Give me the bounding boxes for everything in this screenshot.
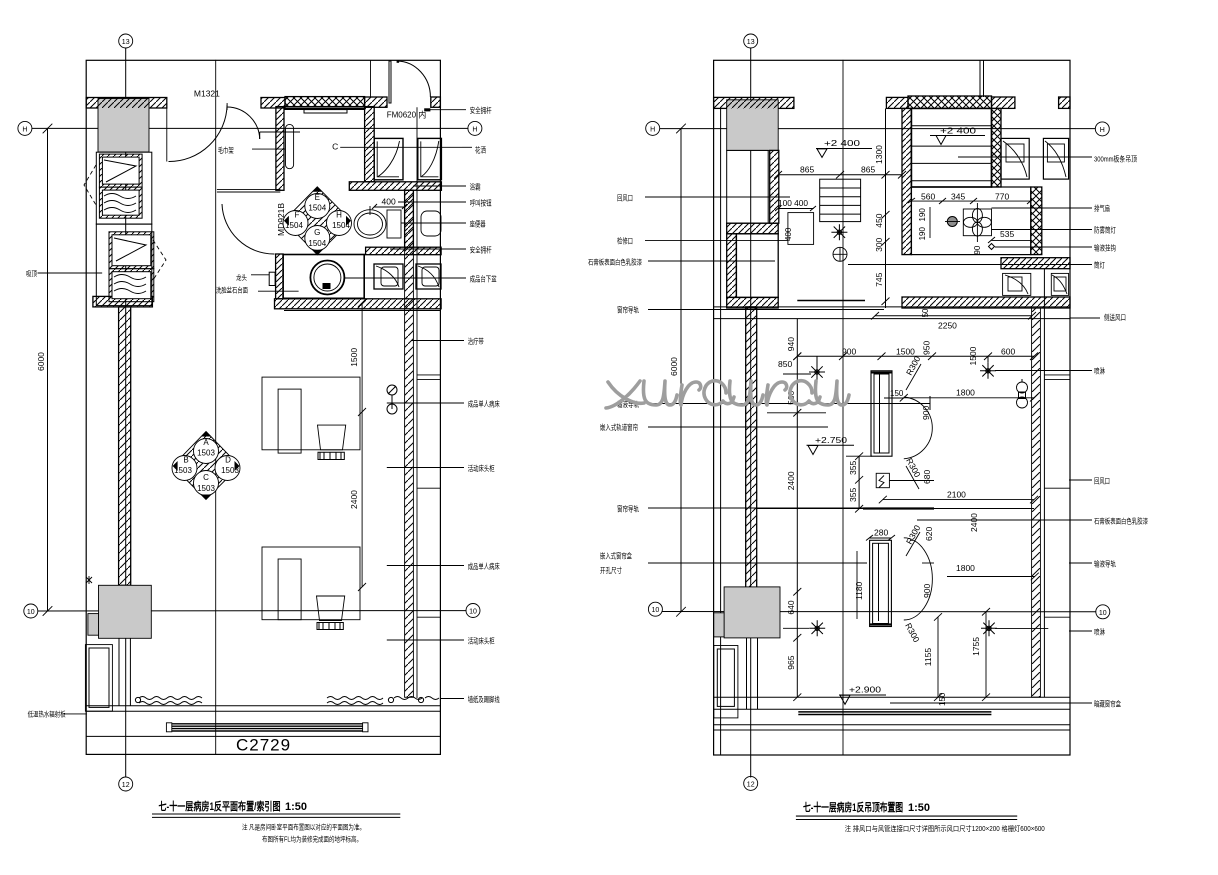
- svg-text:D: D: [225, 456, 231, 465]
- watermark xurourou: [606, 381, 849, 408]
- dashed swing marks: [84, 165, 96, 205]
- svg-text:400: 400: [784, 227, 793, 241]
- equip box 4 frame: [109, 269, 154, 302]
- exhaust vent filled circle: [947, 217, 957, 227]
- bathroom west wall: [276, 107, 284, 191]
- svg-text:535: 535: [1000, 229, 1014, 239]
- svg-text:G: G: [314, 228, 320, 237]
- shaft right wall: [770, 150, 779, 223]
- svg-text:成品台下盆: 成品台下盆: [470, 274, 497, 284]
- svg-text:190: 190: [918, 208, 927, 222]
- svg-text:注 排风口与风管连接口尺寸详图所示风口尺寸1200×200: 注 排风口与风管连接口尺寸详图所示风口尺寸1200×200 格栅灯600×600: [845, 824, 1045, 833]
- band under fan room: [1001, 258, 1070, 269]
- svg-text:1504: 1504: [308, 239, 326, 248]
- svg-text:嵌入式窗帘盒: 嵌入式窗帘盒: [600, 551, 632, 561]
- dim line 6000: [680, 128, 682, 611]
- svg-text:开孔尺寸: 开孔尺寸: [600, 565, 622, 575]
- svg-text:洗脸盆石台面: 洗脸盆石台面: [216, 286, 248, 295]
- column grey C3: [727, 100, 779, 151]
- outer border: [86, 60, 440, 754]
- svg-text:回风口: 回风口: [1094, 477, 1110, 486]
- leader side vent: [1070, 317, 1100, 319]
- svg-text:950: 950: [922, 341, 932, 355]
- svg-text:侧送风口: 侧送风口: [1104, 312, 1126, 322]
- bottom band of bath block: [902, 297, 1070, 308]
- svg-text:1755: 1755: [971, 637, 981, 656]
- svg-text:活动床头柜: 活动床头柜: [468, 636, 495, 646]
- bathroom top inner thick line: [284, 108, 365, 110]
- svg-text:活动床头柜: 活动床头柜: [468, 463, 495, 473]
- IV rail leader mark: [922, 562, 934, 564]
- bath west wall: [902, 108, 911, 254]
- svg-text:回风口: 回风口: [617, 194, 633, 203]
- partition grid line x=215.7: [215, 60, 217, 754]
- shower stall 2: [418, 138, 442, 179]
- shaft band: [727, 223, 779, 234]
- svg-text:F: F: [295, 211, 300, 220]
- wall top-left band: [86, 98, 167, 109]
- radiator wavy 3: [394, 697, 422, 700]
- svg-text:12: 12: [122, 782, 130, 789]
- svg-text:2100: 2100: [947, 490, 966, 500]
- svg-text:呼叫按钮: 呼叫按钮: [470, 198, 492, 208]
- vent box 400: [788, 213, 814, 245]
- sprinkler sun: [831, 224, 847, 240]
- 2250 dim: [875, 315, 1032, 317]
- svg-text:50: 50: [921, 308, 930, 317]
- svg-text:治疗带: 治疗带: [468, 336, 484, 346]
- equip box 1 frame: [99, 154, 142, 187]
- svg-text:安全拥杆: 安全拥杆: [470, 245, 492, 255]
- column grey C2 tab: [88, 614, 99, 636]
- dim line 6000 left: [47, 128, 49, 611]
- svg-text:2400: 2400: [969, 513, 979, 532]
- bed 2 pillow: [278, 559, 301, 620]
- door M1321 arc: [169, 105, 228, 162]
- band under shower stalls: [349, 182, 441, 191]
- downlight circle-cross: [833, 247, 847, 261]
- door FM0620 arc: [397, 61, 430, 97]
- grid line H horizontal: [32, 127, 468, 129]
- leaders right labels top: [992, 207, 1093, 209]
- svg-text:6000: 6000: [669, 357, 679, 376]
- towel room bottom wall: [217, 189, 280, 192]
- svg-text:墙纸及踢脚线: 墙纸及踢脚线: [468, 694, 500, 704]
- wall top-left band: [714, 97, 794, 108]
- svg-text:1503: 1503: [197, 484, 215, 493]
- svg-text:1504: 1504: [308, 204, 326, 213]
- svg-text:150: 150: [890, 389, 904, 398]
- long west wall right plan: [746, 307, 757, 592]
- svg-text:620: 620: [924, 527, 934, 541]
- svg-text:H: H: [336, 211, 342, 220]
- svg-text:七-十一层病房1反吊顶布置图: 七-十一层病房1反吊顶布置图: [803, 800, 903, 814]
- svg-text:13: 13: [747, 39, 755, 46]
- svg-text:喷淋: 喷淋: [1094, 366, 1105, 376]
- svg-text:浴霸: 浴霸: [470, 182, 481, 192]
- svg-text:筒灯: 筒灯: [1094, 260, 1105, 270]
- bed 1 chair: [318, 425, 346, 450]
- bed 2 chair: [317, 596, 345, 621]
- wc partition wall: [405, 190, 414, 247]
- svg-text:865: 865: [861, 165, 875, 175]
- wash basin: [310, 261, 344, 295]
- svg-text:安全拥杆: 安全拥杆: [470, 105, 492, 115]
- grid line vertical 13/12: [125, 48, 127, 777]
- svg-text:2400: 2400: [349, 490, 359, 509]
- svg-text:300mm板条吊顶: 300mm板条吊顶: [1094, 154, 1137, 164]
- grid bubble H left: [18, 121, 32, 135]
- dim 1800 lower: [947, 576, 1035, 578]
- svg-text:560: 560: [921, 191, 935, 201]
- horizontal dim 900/1500/600: [797, 355, 1034, 357]
- top band right of door: [992, 97, 1015, 108]
- svg-text:C: C: [203, 473, 209, 482]
- svg-text:600: 600: [1001, 346, 1015, 356]
- svg-text:680: 680: [922, 470, 932, 484]
- faucet label box: [269, 272, 275, 285]
- 2100 dim: [883, 499, 1034, 501]
- svg-text:低温热水辐射板: 低温热水辐射板: [28, 710, 66, 719]
- toilet 2 partial: [421, 211, 441, 236]
- svg-text:C2729: C2729: [236, 736, 291, 755]
- window sill lines: [86, 705, 440, 707]
- small marker near column: [86, 576, 92, 584]
- svg-text:2400: 2400: [786, 471, 796, 490]
- wall edge right of M1321: [166, 108, 168, 162]
- grid line 10 horizontal: [38, 610, 466, 612]
- partition grid x=843: [842, 60, 844, 755]
- supply grille: [820, 179, 861, 221]
- ceiling strips: [911, 125, 991, 127]
- svg-text:400: 400: [382, 197, 396, 207]
- svg-text:+2.900: +2.900: [849, 685, 881, 695]
- grid bubble 12 bottom: [744, 776, 758, 790]
- curtain arc R300 bed1: [904, 397, 933, 459]
- svg-text:窗帘导轨: 窗帘导轨: [617, 305, 639, 315]
- svg-text:745: 745: [874, 272, 884, 286]
- right plan top door jamb lines: [979, 60, 981, 97]
- svg-text:+2.750: +2.750: [815, 435, 847, 445]
- svg-text:640: 640: [786, 600, 796, 614]
- left col room box: [736, 234, 778, 298]
- svg-text:1500: 1500: [968, 346, 978, 365]
- svg-text:450: 450: [874, 213, 884, 227]
- svg-text:10: 10: [27, 609, 35, 616]
- svg-text:H: H: [650, 126, 655, 133]
- svg-text:10: 10: [469, 609, 477, 616]
- exhaust fan box: [963, 209, 991, 236]
- svg-text:1800: 1800: [956, 563, 975, 573]
- svg-text:防雾筒灯: 防雾筒灯: [1094, 225, 1116, 235]
- door MD921B arc: [222, 204, 275, 254]
- svg-text:石膏板表面白色乳胶漆: 石膏板表面白色乳胶漆: [1094, 517, 1148, 526]
- radiator wavy 1: [139, 697, 202, 700]
- svg-text:90: 90: [973, 245, 982, 254]
- band under toilets: [366, 247, 442, 255]
- svg-text:吸顶: 吸顶: [26, 270, 37, 278]
- toilet 1: [354, 210, 386, 239]
- svg-text:190: 190: [918, 227, 927, 241]
- sink unit 1: [374, 264, 403, 289]
- shaft bottom band: [93, 296, 152, 307]
- outer border right plan: [714, 60, 1070, 755]
- bed 2: [262, 547, 360, 620]
- svg-text:1155: 1155: [923, 648, 933, 667]
- svg-text:成品单人病床: 成品单人病床: [468, 561, 500, 571]
- svg-text:布图所有FL均为装修完成面的地坪标高。: 布图所有FL均为装修完成面的地坪标高。: [262, 835, 362, 844]
- west wall below door MD921B: [276, 254, 284, 299]
- grid bubble 10 left: [24, 604, 38, 618]
- svg-text:龙头: 龙头: [236, 273, 247, 282]
- wet area east wall: [1031, 187, 1042, 255]
- left col bottom band: [727, 297, 779, 308]
- wall seg right of door FM0620: [431, 97, 441, 107]
- svg-text:+2 400: +2 400: [940, 126, 976, 136]
- shaft box: [727, 150, 769, 223]
- bulkhead line: [757, 508, 1034, 510]
- ceiling fan boxes over shower stalls: [1001, 138, 1069, 179]
- long west wall: [119, 307, 131, 585]
- curtain box leader: [890, 702, 1092, 704]
- 355/355 dim: [858, 456, 860, 509]
- svg-text:E: E: [315, 193, 320, 202]
- wall seg left of door FM0620: [365, 97, 387, 107]
- 1755 dim: [985, 612, 987, 697]
- svg-text:10: 10: [652, 607, 660, 614]
- svg-text:12: 12: [747, 781, 755, 788]
- svg-text:石膏板表面白色乳胶漆: 石膏板表面白色乳胶漆: [588, 258, 642, 267]
- grid line 10 horizontal: [662, 611, 1096, 613]
- svg-text:940: 940: [786, 337, 796, 351]
- sink unit 2: [416, 264, 441, 289]
- S switch box: [876, 473, 889, 487]
- svg-text:输液导轨: 输液导轨: [1094, 559, 1116, 569]
- fan units bottom right: [1003, 273, 1031, 295]
- svg-text:注 凡是房间卧室平面布置图以对应的平面图为准。: 注 凡是房间卧室平面布置图以对应的平面图为准。: [242, 823, 365, 832]
- column grey C2: [99, 585, 152, 638]
- equip box 3 frame: [109, 232, 154, 269]
- svg-text:280: 280: [874, 528, 888, 538]
- grid bubble 10 right: [466, 604, 480, 618]
- svg-text:100 400: 100 400: [778, 199, 809, 208]
- shaft outer box: [96, 152, 152, 224]
- leader stubs: [767, 412, 826, 414]
- svg-text:1180: 1180: [854, 581, 864, 600]
- column grey C4: [724, 587, 780, 638]
- niche shelf: [304, 110, 347, 113]
- svg-text:H: H: [472, 126, 477, 133]
- bottom wall lines: [714, 696, 1070, 698]
- bed 1 pillow: [278, 389, 301, 453]
- svg-text:毛巾架: 毛巾架: [218, 145, 234, 155]
- wall band right of door M1321: [261, 98, 285, 109]
- left col room wall: [727, 234, 737, 298]
- bed lamp 2: [870, 540, 892, 626]
- svg-text:355: 355: [848, 488, 858, 502]
- svg-text:900: 900: [842, 346, 856, 356]
- svg-text:排气扇: 排气扇: [1094, 203, 1110, 213]
- bathroom east wall: [365, 107, 375, 182]
- lobby room: [85, 645, 112, 712]
- svg-text:H: H: [22, 126, 27, 133]
- east wall of room: [405, 190, 414, 697]
- equip box 2 frame: [99, 187, 142, 218]
- 1155 dim: [937, 617, 939, 697]
- room bottom edge: [797, 300, 865, 302]
- dim line 1500/2400: [361, 303, 363, 587]
- top band middle: [886, 97, 908, 108]
- wall lines below column C2: [118, 638, 120, 706]
- svg-text:H: H: [1100, 127, 1105, 134]
- bed 1: [262, 377, 360, 450]
- svg-text:喷淋: 喷淋: [1094, 627, 1105, 637]
- dim 560/345/770: [911, 200, 1030, 202]
- svg-text:13: 13: [122, 39, 130, 46]
- switch outlet right: [1017, 382, 1028, 393]
- svg-text:1800: 1800: [956, 388, 975, 398]
- svg-text:A: A: [203, 438, 209, 447]
- svg-text:花洒: 花洒: [475, 145, 486, 155]
- lower line: [86, 735, 440, 737]
- bed lamp 1: [871, 371, 892, 456]
- outlet symbol: [387, 385, 397, 395]
- grid line H horizontal: [660, 128, 1095, 130]
- column grey C1: [98, 99, 149, 153]
- svg-text:B: B: [183, 456, 188, 465]
- grid bubble H right: [468, 121, 482, 135]
- svg-text:10: 10: [1099, 610, 1107, 617]
- svg-text:300: 300: [874, 237, 884, 251]
- sprinkler suns mid: [809, 356, 825, 380]
- svg-text:窗帘导轨: 窗帘导轨: [617, 504, 639, 514]
- svg-text:1300: 1300: [874, 145, 884, 164]
- window 4-line: [172, 723, 363, 725]
- svg-text:1:50: 1:50: [285, 801, 307, 813]
- svg-text:七-十一层病房1反平面布置/索引图: 七-十一层病房1反平面布置/索引图: [159, 799, 281, 813]
- svg-text:1503: 1503: [197, 449, 215, 458]
- svg-text:C: C: [332, 142, 338, 152]
- shaft 2 outer: [96, 224, 152, 306]
- svg-text:输液挂钩: 输液挂钩: [1094, 243, 1116, 253]
- inner border line: [720, 108, 722, 754]
- wet area box: [911, 187, 1030, 255]
- grid bubble 13 top: [744, 34, 758, 48]
- towel bar in bathroom: [286, 124, 294, 168]
- svg-text:嵌入式轨道窗帘: 嵌入式轨道窗帘: [600, 422, 638, 432]
- bottom band of bath block: [275, 299, 442, 309]
- right plan east wall: [747, 269, 1071, 710]
- right channel stubs: [417, 374, 440, 376]
- door FM0620 leaf: [389, 61, 391, 103]
- svg-text:150: 150: [938, 692, 947, 706]
- wall line above FM0620: [370, 60, 372, 97]
- lobby room right plan: [714, 646, 738, 718]
- sprinkler suns bottom: [809, 620, 825, 636]
- svg-text:355: 355: [848, 461, 858, 475]
- svg-text:FM0620 内: FM0620 内: [387, 110, 427, 120]
- svg-text:770: 770: [995, 191, 1009, 201]
- vertical dim line x=797.3: [796, 319, 798, 698]
- svg-text:座便器: 座便器: [470, 219, 486, 229]
- wall line below bath block: [284, 310, 440, 312]
- corridor lines: [714, 306, 1070, 308]
- svg-text:1500: 1500: [349, 348, 359, 367]
- gypsum leader: [917, 519, 1092, 521]
- svg-text:6000: 6000: [36, 352, 46, 371]
- leader 300mm: [958, 156, 1092, 158]
- dim 1800 upper: [904, 397, 1034, 399]
- bathroom ceiling box: [911, 108, 991, 187]
- svg-text:850: 850: [778, 359, 792, 369]
- svg-text:865: 865: [800, 165, 814, 175]
- svg-text:2250: 2250: [938, 320, 957, 330]
- svg-text:+2 400: +2 400: [824, 138, 860, 148]
- svg-text:暗藏窗帘盒: 暗藏窗帘盒: [1094, 699, 1121, 709]
- radiator wavy 2: [327, 697, 383, 700]
- grid bubble 12 bottom: [119, 777, 133, 791]
- svg-text:345: 345: [951, 191, 965, 201]
- vanity room box: [283, 255, 364, 299]
- grid bubble 13 top: [119, 34, 133, 48]
- svg-text:成品单人病床: 成品单人病床: [468, 399, 500, 409]
- svg-text:1:50: 1:50: [908, 802, 930, 814]
- grid line vertical 13/12 right plan: [750, 48, 752, 777]
- wall below column C2 right plan: [746, 638, 748, 709]
- svg-text:965: 965: [786, 655, 796, 669]
- curtain arc bed 2: [904, 538, 933, 620]
- svg-text:900: 900: [922, 584, 932, 598]
- svg-text:M1321: M1321: [194, 89, 220, 99]
- svg-text:检修口: 检修口: [617, 236, 633, 246]
- shower stall 1: [374, 138, 403, 179]
- dim 865/865: [778, 174, 902, 176]
- right dim column 1300/450/300/745: [885, 109, 887, 309]
- bath east wall: [992, 108, 1002, 187]
- IV rail tick: [929, 396, 931, 410]
